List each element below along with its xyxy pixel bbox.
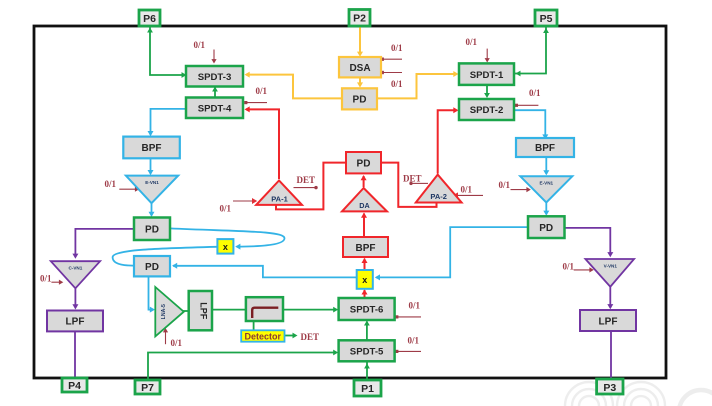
svg-text:SPDT-5: SPDT-5 — [350, 346, 384, 357]
svg-text:P4: P4 — [68, 380, 81, 392]
svg-text:x: x — [223, 242, 228, 252]
svg-text:0/1: 0/1 — [499, 180, 511, 190]
svg-text:0/1: 0/1 — [391, 43, 403, 53]
svg-text:0/1: 0/1 — [563, 262, 575, 272]
svg-text:PD: PD — [145, 262, 159, 273]
svg-text:LPF: LPF — [198, 302, 208, 320]
svg-text:PD: PD — [357, 158, 371, 169]
svg-text:SPDT-4: SPDT-4 — [198, 103, 232, 114]
svg-text:SPDT-1: SPDT-1 — [470, 70, 504, 81]
svg-text:x: x — [362, 275, 367, 285]
svg-text:P2: P2 — [353, 13, 366, 25]
svg-text:0/1: 0/1 — [194, 40, 206, 50]
svg-text:LPF: LPF — [599, 317, 618, 328]
svg-text:BPF: BPF — [535, 143, 555, 154]
svg-text:0/1: 0/1 — [466, 37, 478, 47]
svg-text:P7: P7 — [141, 382, 154, 394]
svg-text:DSA: DSA — [349, 63, 370, 74]
svg-text:0/1: 0/1 — [391, 79, 403, 89]
svg-text:C-VN1: C-VN1 — [69, 266, 83, 271]
svg-text:PA-2: PA-2 — [430, 192, 447, 201]
svg-text:PA-1: PA-1 — [271, 195, 288, 204]
svg-text:PD: PD — [353, 95, 367, 106]
svg-text:P1: P1 — [361, 383, 374, 395]
svg-text:0/1: 0/1 — [105, 179, 117, 189]
svg-text:P5: P5 — [540, 13, 553, 25]
svg-text:0/1: 0/1 — [408, 336, 420, 346]
svg-text:E-VN1: E-VN1 — [145, 180, 159, 185]
svg-text:0/1: 0/1 — [529, 88, 541, 98]
svg-text:DET: DET — [301, 332, 320, 342]
svg-text:E-VN1: E-VN1 — [540, 181, 554, 186]
svg-text:DET: DET — [403, 174, 422, 184]
svg-text:BPF: BPF — [356, 243, 376, 254]
svg-text:DA: DA — [359, 201, 369, 210]
svg-text:PD: PD — [539, 223, 553, 234]
svg-text:V-VN1: V-VN1 — [604, 264, 618, 269]
svg-text:Detector: Detector — [245, 331, 282, 341]
svg-text:0/1: 0/1 — [409, 301, 421, 311]
svg-text:0/1: 0/1 — [256, 86, 268, 96]
svg-text:LPF: LPF — [66, 317, 85, 328]
svg-text:0/1: 0/1 — [220, 204, 232, 214]
svg-text:SPDT-6: SPDT-6 — [350, 305, 384, 316]
svg-text:0/1: 0/1 — [461, 185, 473, 195]
svg-text:LNA-5: LNA-5 — [161, 304, 167, 319]
svg-text:DET: DET — [297, 175, 316, 185]
svg-text:SPDT-3: SPDT-3 — [198, 72, 232, 83]
svg-text:P6: P6 — [143, 13, 156, 25]
svg-text:P3: P3 — [603, 382, 616, 394]
svg-text:0/1: 0/1 — [171, 338, 183, 348]
svg-text:SPDT-2: SPDT-2 — [470, 105, 504, 116]
svg-text:PD: PD — [145, 225, 159, 236]
svg-text:BPF: BPF — [142, 143, 162, 154]
svg-text:0/1: 0/1 — [40, 274, 52, 284]
